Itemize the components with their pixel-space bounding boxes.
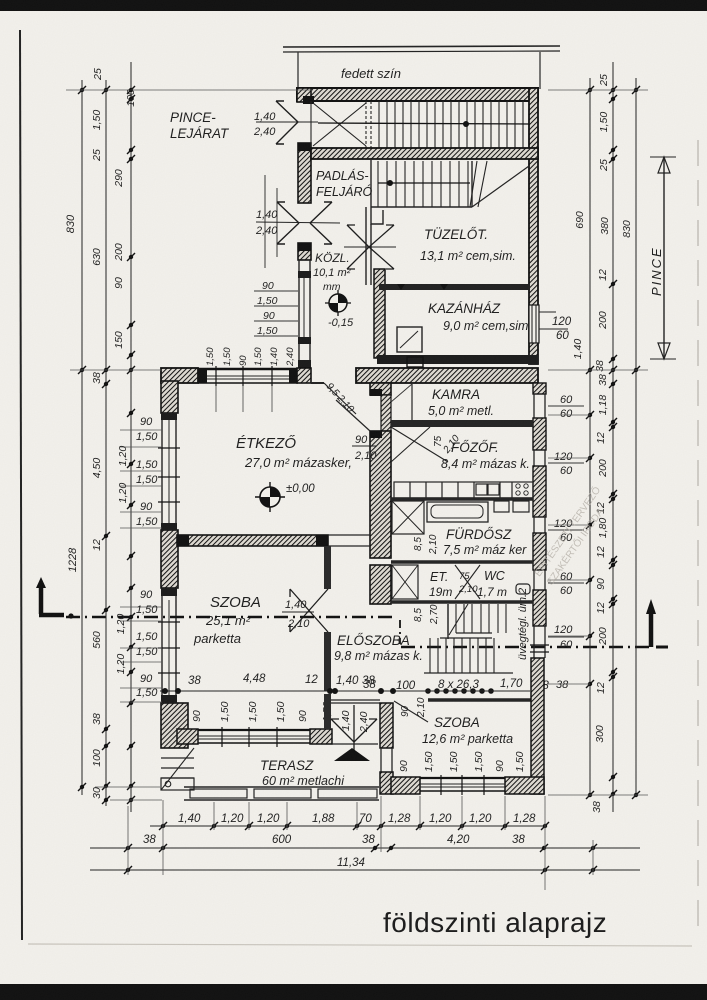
survey circle étkező ±0,00	[255, 482, 285, 512]
padlás stair walk line	[378, 182, 470, 184]
tüzelőt step notch	[371, 207, 383, 224]
stair bottom wall	[311, 148, 538, 159]
padlás door swing	[277, 202, 332, 244]
left section mark	[39, 584, 44, 614]
étkező east door swing	[336, 400, 370, 431]
stair risers	[379, 101, 523, 148]
szoba-előszoba door	[290, 589, 328, 632]
kamra south wall	[391, 420, 533, 427]
stair cross lines	[313, 103, 366, 146]
pince-lejárat door swing (double leaf)	[276, 101, 298, 144]
terasz west steps	[161, 757, 194, 759]
top black border bar	[0, 0, 707, 11]
wc fixture	[516, 584, 530, 594]
canopy left post line	[297, 52, 299, 89]
kitchen counter	[394, 482, 533, 498]
kazánház south wall	[377, 355, 538, 364]
rotated window dims szoba south	[191, 701, 333, 722]
small vert dim line for door	[276, 188, 278, 257]
horizontal extension lines left	[66, 90, 313, 800]
survey circle KÖZL	[325, 290, 351, 316]
szoba south wall corner W	[177, 729, 198, 744]
wall below fürdősz	[391, 560, 533, 563]
mid landing	[456, 632, 492, 634]
kazánház west wall	[374, 269, 385, 358]
annex west wall foot joins north wall	[297, 368, 311, 383]
stove	[397, 327, 422, 352]
south wall corners	[391, 777, 420, 794]
szoba south wall corner E	[310, 729, 332, 744]
washbasins	[494, 501, 509, 512]
étkező-szoba door opening lines	[328, 534, 370, 536]
terasz south edge with planters	[184, 786, 379, 788]
rotated dims above south wall	[398, 751, 526, 772]
bottom black border bar	[0, 984, 707, 1000]
rotated pier dims on chain C	[115, 446, 129, 675]
lower flight	[430, 638, 494, 673]
left frame line	[20, 30, 22, 940]
west wall window band 1 (étkező)	[161, 413, 163, 530]
north wall right of közl opening	[356, 368, 538, 383]
west wall bottom corner	[161, 703, 188, 748]
stair walk line	[318, 123, 529, 124]
vertical extension lines bottom	[128, 796, 593, 890]
annex west wall lower window band (KÖZL)	[298, 260, 300, 368]
wall below ET/WC	[391, 600, 533, 603]
annex north wall	[297, 88, 538, 101]
west wall window band 2 (szoba)	[161, 588, 163, 703]
window/door fan into tüzelőt	[347, 225, 394, 269]
right chain labels rotated	[572, 74, 633, 813]
extension lines right	[548, 90, 648, 795]
fürdősz north wall	[391, 497, 533, 500]
terasz east door (fan)	[331, 705, 377, 760]
rotated small dims row above étkező north wall	[205, 347, 296, 367]
right window dim fraction lines	[548, 406, 584, 637]
door dim 140/240	[256, 121, 318, 123]
kamra east wall / east wall of main block upper	[533, 383, 546, 394]
west wall pier block mid	[161, 530, 178, 588]
svg-text:földszinti alaprajz: földszinti alaprajz	[383, 907, 607, 938]
entry door swing	[394, 701, 428, 722]
watermark	[530, 483, 615, 587]
szoba south window band	[198, 729, 310, 731]
right faint frame line	[697, 140, 699, 940]
PINCE arrow	[663, 157, 665, 359]
riser dots row	[425, 688, 494, 694]
chain ticks	[78, 86, 135, 804]
kazánház east window	[529, 305, 539, 343]
canopy right post line	[539, 52, 541, 89]
padlás stair winder diagonals	[470, 161, 477, 207]
közl->étkező door swing	[324, 383, 356, 414]
shower X	[392, 501, 424, 534]
stair enclosure left line	[370, 159, 372, 207]
left window dims (horizontal text)	[136, 416, 158, 699]
szoba east wall	[324, 546, 331, 589]
főzőf door diagonal	[391, 427, 448, 462]
right section mark	[649, 612, 654, 647]
north wall window band (étkező)	[198, 368, 298, 370]
west wall	[380, 703, 393, 748]
closet X left of ET	[392, 565, 418, 599]
annex west wall block between doors	[298, 143, 311, 203]
faint bottom rule	[28, 944, 692, 946]
solid triangle mark	[334, 748, 370, 761]
közl west window dims	[257, 280, 278, 337]
NW corner block	[161, 368, 198, 383]
west wall upper corner pier	[161, 381, 178, 413]
terasz door head lines	[331, 699, 380, 701]
canopy roof double line	[283, 46, 560, 47]
east wall	[531, 658, 544, 794]
bathtub	[427, 502, 488, 522]
annex west wall top stub	[297, 88, 311, 102]
szoba east wall stub to south wall	[324, 694, 331, 729]
annex west wall mid block	[298, 243, 311, 260]
left chain labels	[65, 214, 79, 572]
annex east wall	[529, 88, 538, 364]
door dim 140/240	[256, 222, 340, 223]
étkező south wall	[177, 535, 328, 546]
section dash-dot line	[66, 617, 653, 647]
west wall of tüzelőt	[365, 207, 367, 285]
south window band	[420, 777, 505, 779]
üvegtégl window	[533, 626, 535, 658]
wall between tüzelőt and kazánház	[379, 284, 530, 290]
right window dim labels horizontal	[554, 394, 573, 691]
szoba north wall (stair side)	[428, 698, 531, 701]
